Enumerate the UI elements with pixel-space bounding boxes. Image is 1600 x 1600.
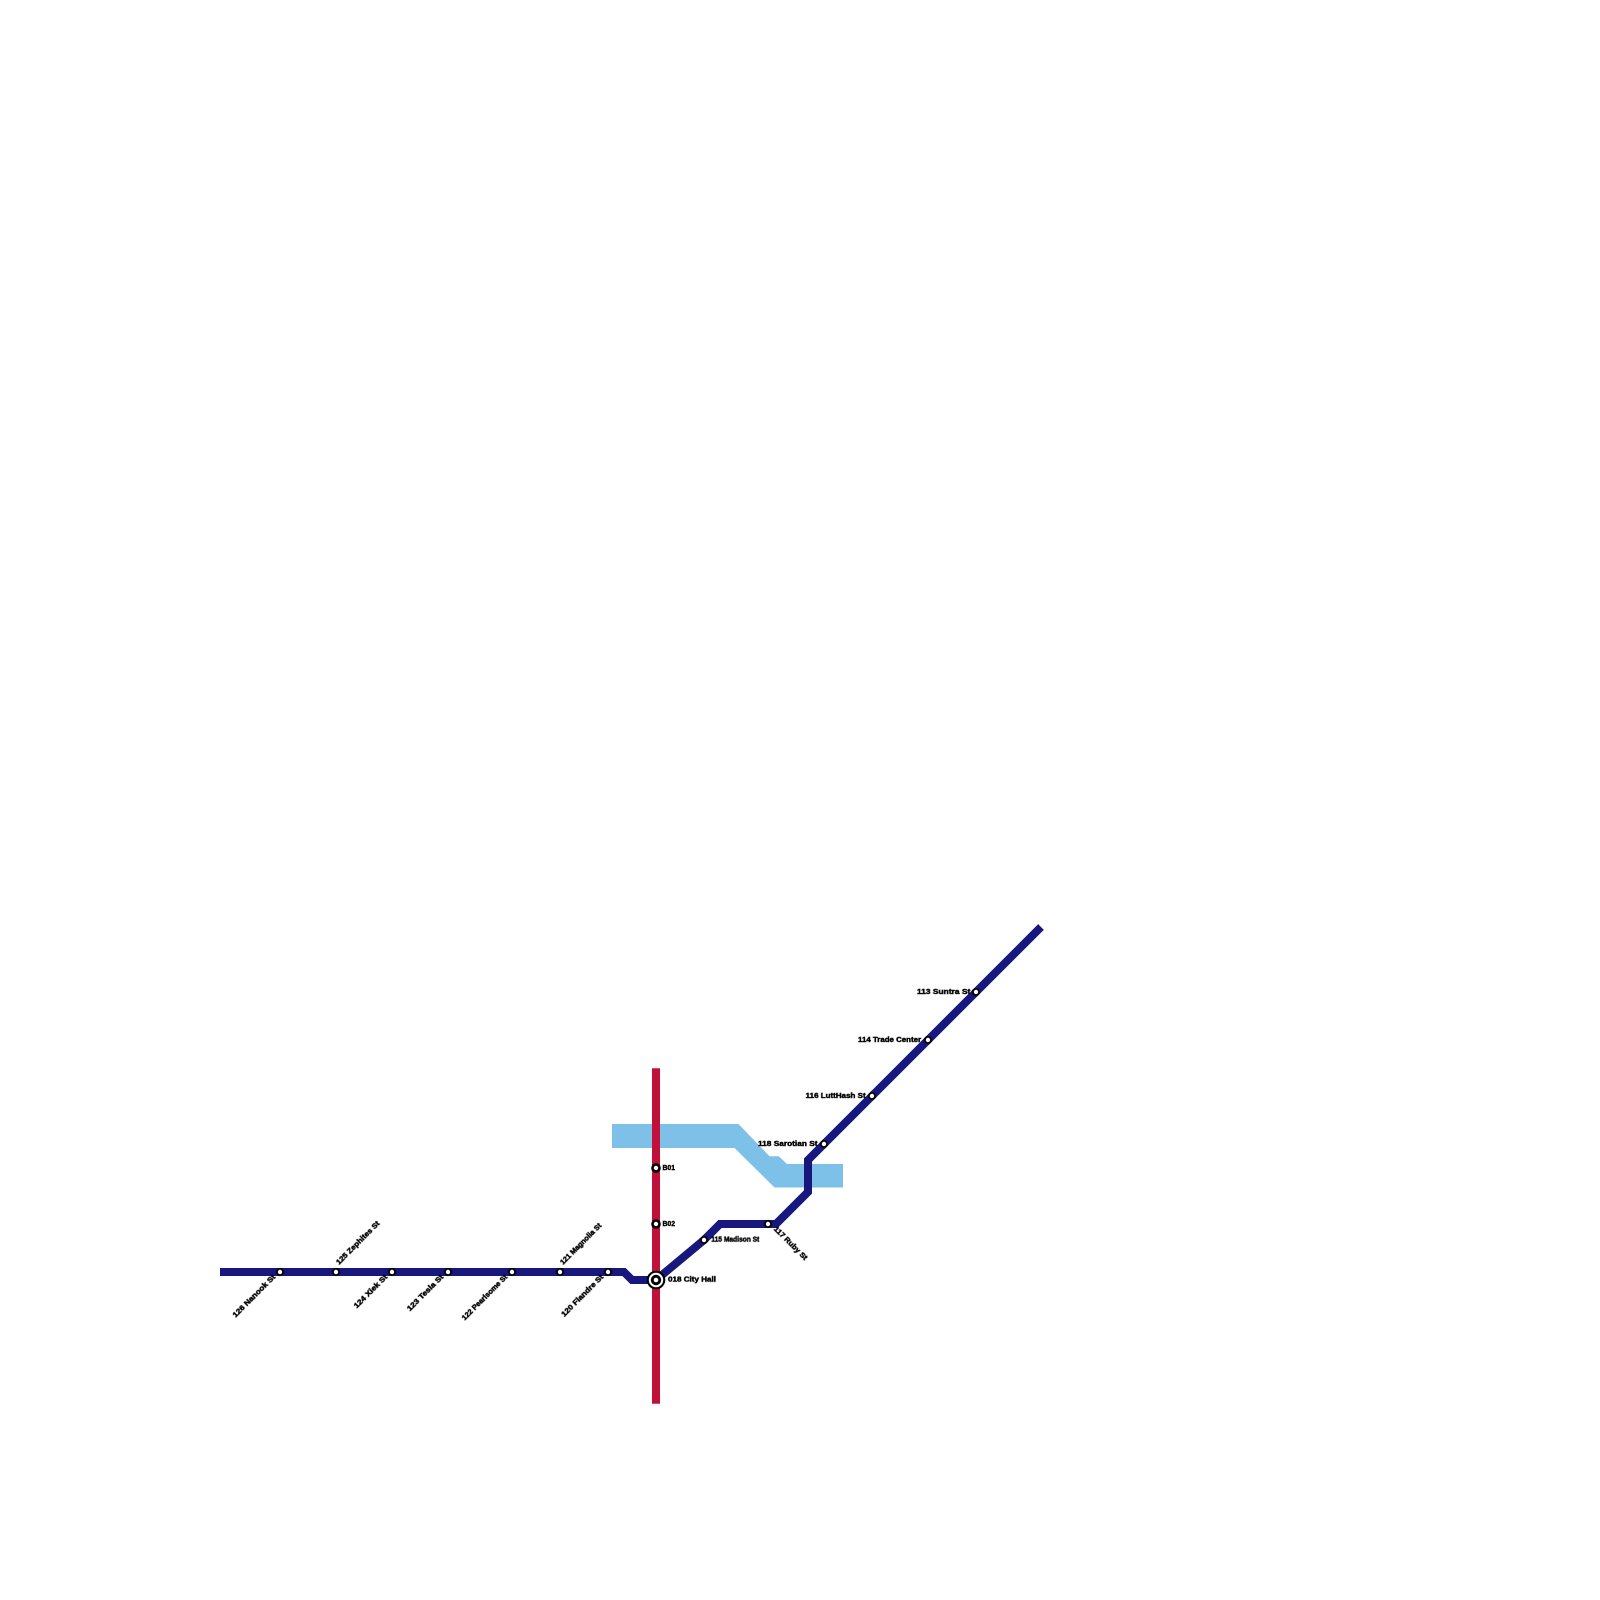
station LuttHash [806,1091,877,1100]
svg-text:116 LuttHash St: 116 LuttHash St [806,1091,867,1100]
station Trade Center [858,1035,932,1044]
svg-text:B02: B02 [662,1219,675,1228]
svg-text:B01: B01 [662,1163,675,1172]
svg-text:115 Madison St: 115 Madison St [711,1235,759,1244]
station Sarotian [758,1139,828,1148]
station S7 [559,1268,612,1319]
station S1 [231,1268,285,1319]
station B01 [651,1163,675,1173]
river [612,1124,843,1188]
station B02 [651,1219,675,1229]
svg-text:113 Suntra St: 113 Suntra St [917,987,971,996]
station S3 [352,1268,396,1310]
station Suntra [917,987,980,996]
svg-text:114 Trade Center: 114 Trade Center [858,1035,921,1044]
station S6 [556,1221,604,1276]
svg-text:118 Sarotian St: 118 Sarotian St [758,1139,818,1148]
red line B [652,1068,660,1404]
station S2 [332,1219,382,1276]
station S4 [405,1268,452,1313]
svg-text:018 City Hall: 018 City Hall [668,1275,716,1284]
station S5 [460,1268,516,1322]
station Madison [700,1235,760,1245]
station Ruby [764,1220,810,1262]
navy line 1 [220,927,1041,1280]
station City Hall (interchange) [647,1271,716,1290]
